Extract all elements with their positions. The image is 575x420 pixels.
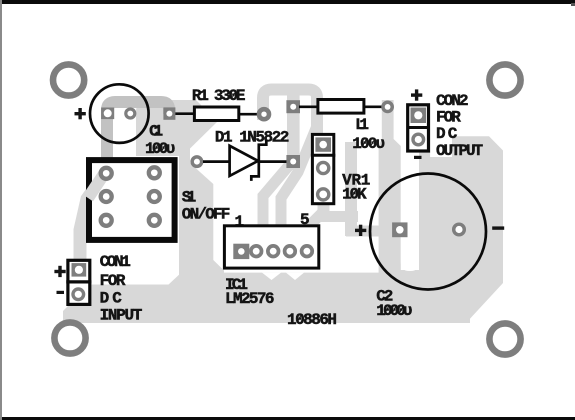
wire: R1 pad to L1/VR1 top trace xyxy=(263,90,317,137)
wire: L1 right pad down to C2 column xyxy=(379,100,401,323)
copper pour: below C2 notch xyxy=(398,270,421,323)
diode D1 xyxy=(192,129,300,181)
wire: VR1 bottom horizontal trace xyxy=(318,211,358,222)
wire: VR1 top trace down to IC1 pin 3 xyxy=(281,126,317,248)
mounting hole top-left xyxy=(53,64,84,95)
wire: C1 positive trace to R1 left pad xyxy=(107,102,169,174)
svg-text:ON/OFF: ON/OFF xyxy=(182,205,231,223)
resistor R1 xyxy=(163,87,269,120)
wire: VR1 bottom elbow to IC1 pin 5 xyxy=(308,213,322,248)
svg-text:D1 1N5822: D1 1N5822 xyxy=(215,129,289,147)
svg-text:10K: 10K xyxy=(342,185,367,203)
svg-text:L1: L1 xyxy=(355,116,369,134)
capacitor C1 xyxy=(75,84,176,158)
trimmer VR1 xyxy=(311,134,371,203)
wire: trace between L1 and C2 xyxy=(345,142,357,236)
copper pour: band right of S1 xyxy=(168,148,224,285)
svg-text:CON1: CON1 xyxy=(100,253,131,271)
IC U1 LM2576 xyxy=(224,211,318,308)
svg-text:100υ: 100υ xyxy=(352,135,385,153)
wire: S1 to CON1 diagonal trace xyxy=(80,172,106,276)
svg-text:C1: C1 xyxy=(149,123,163,141)
svg-text:10886H: 10886H xyxy=(287,311,337,329)
mounting hole bottom-right xyxy=(489,323,520,354)
white clearance notch left of output zone xyxy=(401,150,419,271)
mounting hole top-right xyxy=(489,64,520,95)
svg-text:FOR: FOR xyxy=(436,108,461,126)
board id 10886H xyxy=(287,311,337,329)
svg-text:1000υ: 1000υ xyxy=(376,302,412,320)
capacitor C2 xyxy=(355,174,504,320)
wire: L1/D1 cathode column trace xyxy=(287,95,300,170)
svg-text:100υ: 100υ xyxy=(145,140,175,158)
svg-text:FOR: FOR xyxy=(100,272,126,290)
white wedge notches below IC1 xyxy=(262,273,281,280)
wire: D1 pad diagonal down to IC1 pin 2 xyxy=(263,162,292,248)
svg-text:INPUT: INPUT xyxy=(100,307,143,325)
inductor L1 xyxy=(286,100,392,154)
connector CON2 xyxy=(407,89,484,159)
switch S1 xyxy=(88,160,230,240)
wire: CON2 down stub xyxy=(419,152,430,160)
svg-text:S1: S1 xyxy=(182,189,196,207)
svg-text:DC: DC xyxy=(436,125,458,143)
svg-text:OUTPUT: OUTPUT xyxy=(436,142,483,160)
connector CON1 xyxy=(54,253,142,325)
mounting hole bottom-left xyxy=(54,322,85,353)
svg-text:CON2: CON2 xyxy=(436,92,469,110)
copper pour: upper-left fill zone xyxy=(136,100,218,156)
svg-text:R1 330E: R1 330E xyxy=(192,87,246,105)
wire: VR1 bottom stub xyxy=(318,205,330,217)
copper pour: output zone right of C2 xyxy=(419,136,503,323)
wire: C2 positive trace xyxy=(346,226,381,237)
copper pour: bottom band xyxy=(63,273,470,323)
svg-text:LM2576: LM2576 xyxy=(225,290,275,308)
